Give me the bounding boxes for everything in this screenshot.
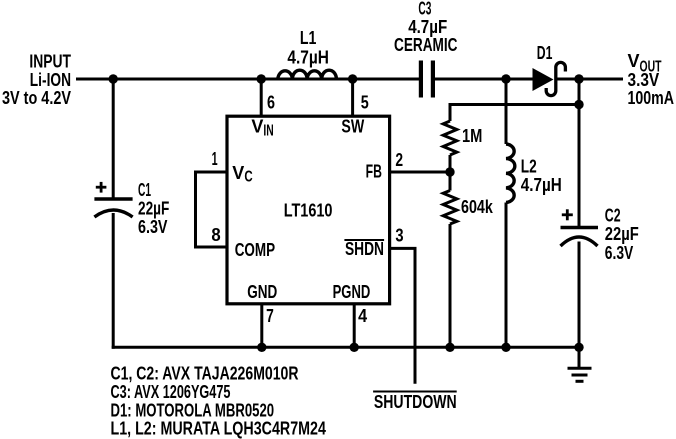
svg-text:604k: 604k <box>461 197 494 217</box>
svg-text:INPUT: INPUT <box>29 52 71 72</box>
label INPUT <box>2 52 71 109</box>
label C2 <box>605 206 639 264</box>
wire C1 top leg <box>112 79 115 199</box>
svg-text:5: 5 <box>361 93 369 113</box>
svg-text:SHDN: SHDN <box>345 239 384 259</box>
wire pin 5 stub <box>351 79 354 116</box>
node gnd pin7 <box>257 343 266 352</box>
svg-text:2: 2 <box>395 150 403 170</box>
svg-text:PGND: PGND <box>333 282 371 302</box>
wire rail C3 to D1 <box>435 78 533 81</box>
svg-text:4.7µH: 4.7µH <box>521 175 562 195</box>
capacitor C2 (polarized) <box>561 228 599 247</box>
wire bottom ground rail <box>112 346 579 349</box>
label C3 <box>394 0 458 55</box>
wire L2 bottom leg <box>505 203 508 348</box>
svg-text:C1: C1 <box>138 180 151 200</box>
node divider top <box>574 100 583 109</box>
svg-text:1: 1 <box>212 149 218 169</box>
inductor L1 <box>278 70 337 79</box>
node gnd pin4 <box>350 343 359 352</box>
wire input rail left <box>76 78 419 81</box>
svg-text:COMP: COMP <box>235 240 275 260</box>
svg-text:6.3V: 6.3V <box>605 243 634 263</box>
svg-text:1M: 1M <box>462 126 482 146</box>
node gnd 604k <box>445 343 454 352</box>
node input/C1 <box>109 74 118 83</box>
svg-text:3V to 4.2V: 3V to 4.2V <box>2 88 71 108</box>
svg-text:FB: FB <box>366 161 382 181</box>
svg-text:L2: L2 <box>521 157 537 177</box>
svg-text:3.3V: 3.3V <box>628 70 660 90</box>
svg-text:D1: MOTOROLA MBR0520: D1: MOTOROLA MBR0520 <box>111 400 275 420</box>
svg-text:C3: AVX 1206YG475: C3: AVX 1206YG475 <box>111 382 231 402</box>
capacitor C1 (polarized) <box>94 199 132 217</box>
svg-text:L1: L1 <box>300 28 317 48</box>
svg-text:22µF: 22µF <box>605 224 639 244</box>
node VIN/L1 left <box>257 74 266 83</box>
label C1 <box>138 180 169 237</box>
svg-text:100mA: 100mA <box>628 88 675 108</box>
notes text <box>111 364 326 439</box>
wire 1M top leg <box>449 103 452 121</box>
svg-text:4: 4 <box>358 306 367 326</box>
wire L2 top leg <box>505 79 508 144</box>
svg-text:SW: SW <box>341 117 364 137</box>
wire feedback top rail <box>450 103 579 106</box>
svg-text:CERAMIC: CERAMIC <box>394 35 458 55</box>
svg-text:8: 8 <box>211 225 220 245</box>
inductor L2 <box>506 144 515 203</box>
svg-text:3: 3 <box>395 226 403 246</box>
wire 604k top leg <box>449 172 452 191</box>
ground stub <box>578 347 581 368</box>
svg-text:C3: C3 <box>418 0 431 18</box>
svg-text:4.7µF: 4.7µF <box>408 17 447 37</box>
svg-text:C1, C2: AVX TAJA226M010R: C1, C2: AVX TAJA226M010R <box>111 364 299 384</box>
svg-text:7: 7 <box>266 306 274 326</box>
wire C2 bottom leg <box>578 242 581 348</box>
wire pin 7 stub <box>260 303 263 347</box>
wire VC-COMP loop pins 1-8 <box>196 172 228 247</box>
svg-text:Li-ION: Li-ION <box>30 70 71 90</box>
svg-text:L1, L2: MURATA LQH3C4R7M24: L1, L2: MURATA LQH3C4R7M24 <box>111 419 326 439</box>
svg-text:22µF: 22µF <box>138 199 169 219</box>
wire FB pin 2 <box>390 171 450 174</box>
node VOUT <box>574 74 583 83</box>
label VOUT <box>628 51 675 108</box>
wire rail D1 to VOUT <box>557 78 623 81</box>
wire pin 6 stub <box>260 79 263 116</box>
capacitor C3 plates <box>421 61 433 98</box>
node FB <box>445 167 454 176</box>
wire 1M bottom leg <box>449 155 452 172</box>
svg-text:GND: GND <box>247 282 277 302</box>
svg-text:VIN: VIN <box>251 117 273 140</box>
IC U1 LT1610 body <box>227 116 390 304</box>
wire SHDN pin 3 to SHUTDOWN <box>390 248 415 383</box>
svg-text:6.3V: 6.3V <box>138 217 168 237</box>
wire C1 bottom leg <box>112 213 115 349</box>
C2 plus sign <box>562 209 573 220</box>
svg-text:C2: C2 <box>605 206 621 226</box>
wire 604k bottom leg <box>449 224 452 347</box>
node gnd L2 <box>501 343 510 352</box>
svg-text:LT1610: LT1610 <box>284 201 333 221</box>
ground <box>568 368 592 381</box>
label L2 <box>521 157 562 196</box>
svg-text:4.7µH: 4.7µH <box>287 48 329 68</box>
node SW/L1 right <box>348 74 357 83</box>
resistor R2 604k <box>443 191 457 225</box>
label L1 <box>287 28 329 68</box>
svg-text:SHUTDOWN: SHUTDOWN <box>374 392 457 412</box>
C1 plus sign <box>96 182 107 193</box>
svg-text:VC: VC <box>232 163 253 186</box>
diode D1 (schottky) <box>533 62 566 95</box>
svg-text:D1: D1 <box>537 43 553 63</box>
node D1 anode / L2 <box>501 74 510 83</box>
svg-text:6: 6 <box>267 93 275 113</box>
resistor R1 1M <box>443 121 457 155</box>
wire VOUT down to C2 <box>578 79 581 228</box>
node gnd C2 <box>574 343 583 352</box>
wire pin 4 stub <box>353 303 356 347</box>
